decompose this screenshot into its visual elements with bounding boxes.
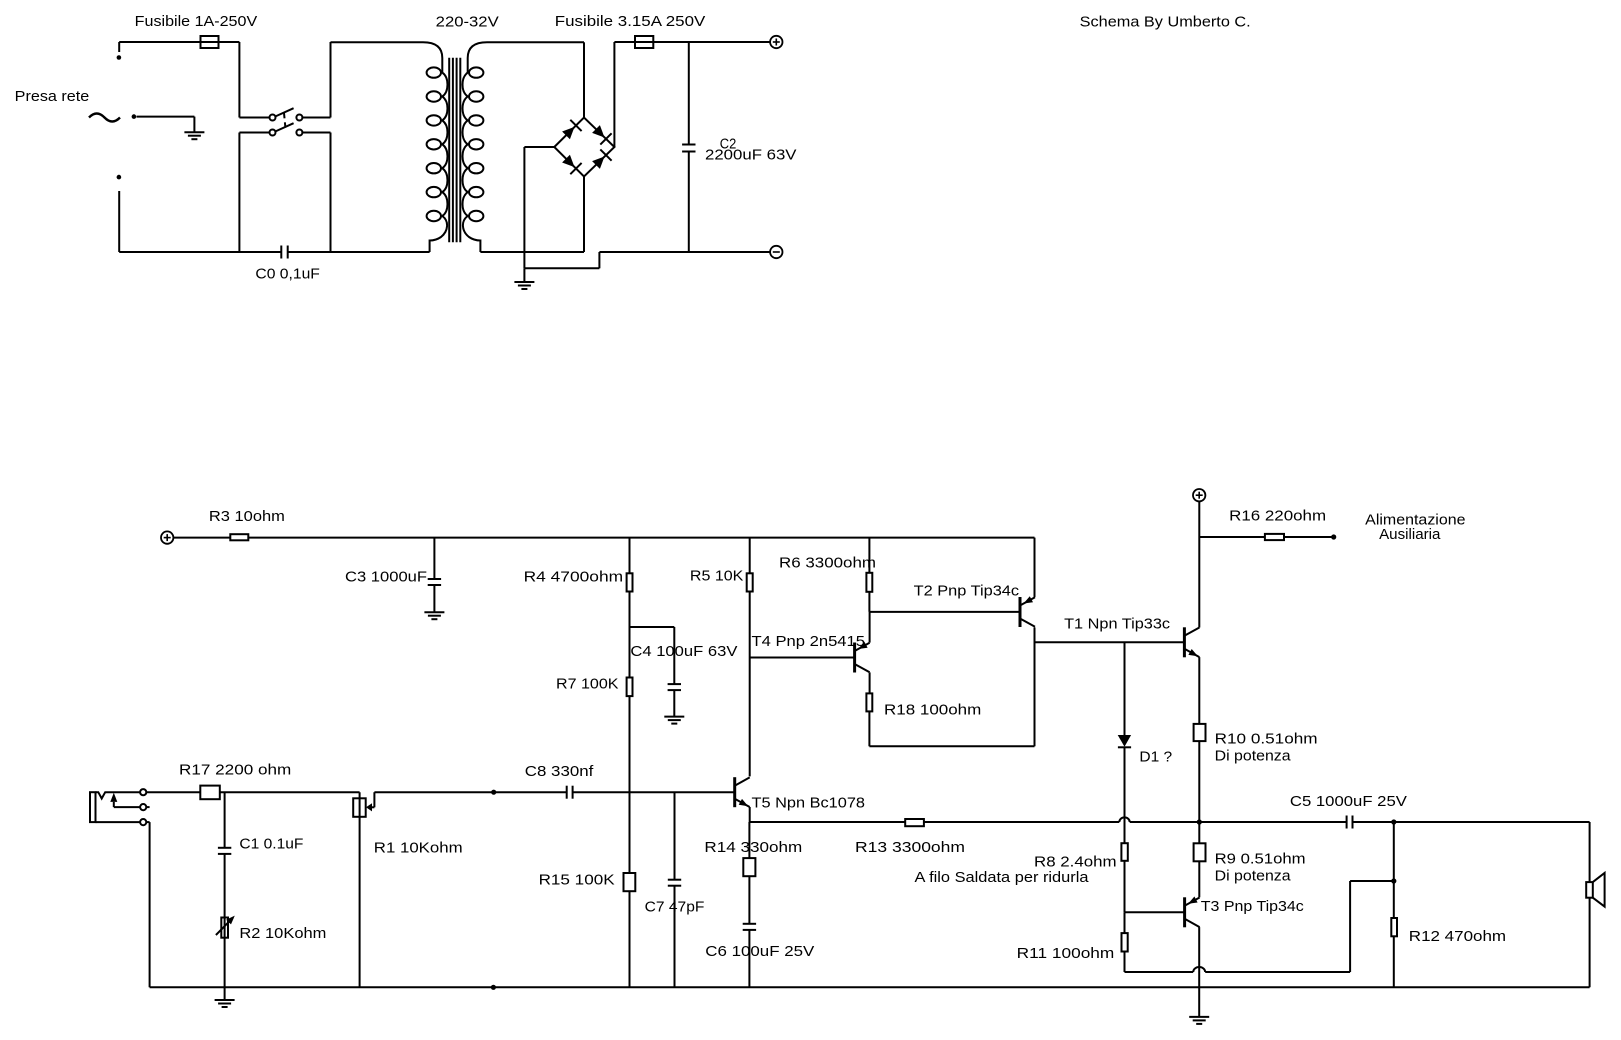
wire minus jog horizontal bbox=[524, 267, 599, 269]
ground C4 bbox=[664, 717, 684, 724]
svg-text:C4 100uF 63V: C4 100uF 63V bbox=[630, 643, 737, 660]
capacitor C5 bbox=[1347, 816, 1353, 829]
svg-text:Di potenza: Di potenza bbox=[1215, 867, 1292, 884]
wire R7 to R15 bbox=[629, 696, 631, 873]
wire T4 emitter up bbox=[869, 612, 871, 643]
resistor R18 bbox=[866, 693, 872, 711]
svg-text:R6 3300ohm: R6 3300ohm bbox=[779, 555, 876, 572]
switch S1 pole2 contact L bbox=[270, 130, 276, 136]
svg-text:R14 330ohm: R14 330ohm bbox=[704, 839, 802, 856]
node C5 R12 junction bbox=[1391, 819, 1396, 824]
wire T1 emitter to R10 bbox=[1198, 657, 1200, 724]
wire R11 rail to hop bbox=[1125, 971, 1194, 973]
resistor R3 bbox=[230, 534, 248, 540]
wire hop to corner bbox=[1205, 971, 1350, 973]
svg-text:T1 Npn Tip33c: T1 Npn Tip33c bbox=[1064, 616, 1171, 633]
wire speaker top bbox=[1589, 822, 1591, 882]
terminal minus output bbox=[770, 246, 782, 258]
svg-text:C1 0.1uF: C1 0.1uF bbox=[239, 836, 303, 853]
diode bridge D-TR bbox=[592, 125, 612, 145]
wire bridge ground stem bbox=[523, 268, 525, 282]
wire R5 top bbox=[749, 538, 751, 574]
wire R12 bottom bbox=[1393, 936, 1395, 987]
capacitor C8 bbox=[567, 786, 573, 799]
svg-text:T2 Pnp Tip34c: T2 Pnp Tip34c bbox=[914, 583, 1020, 600]
resistor R13 bbox=[905, 819, 924, 826]
svg-text:Fusibile 1A-250V: Fusibile 1A-250V bbox=[135, 13, 258, 30]
switch S1 pole1 blade bbox=[276, 108, 294, 116]
wire R10 to mid rail bbox=[1198, 741, 1200, 822]
wire bridge minus left bbox=[524, 146, 554, 148]
switch S1 pole2 blade bbox=[276, 123, 294, 131]
resistor R6 bbox=[866, 573, 872, 592]
wire bottom rail bbox=[150, 986, 1590, 988]
svg-text:T4 Pnp 2n5415: T4 Pnp 2n5415 bbox=[752, 633, 866, 650]
wire hop over D1 line bbox=[1119, 817, 1129, 822]
wire T2 collector to T1 base bbox=[1035, 641, 1185, 643]
wire R6 down bbox=[868, 592, 870, 612]
wire T4 collector down bbox=[869, 672, 871, 693]
svg-text:Fusibile 3.15A 250V: Fusibile 3.15A 250V bbox=[555, 13, 706, 30]
ground T3 collector bbox=[1189, 1017, 1209, 1024]
wire loop up to T2 collector bbox=[1034, 627, 1036, 746]
wire C1 top bbox=[224, 792, 226, 848]
svg-text:R1 10Kohm: R1 10Kohm bbox=[374, 840, 463, 857]
wire hop to T1 node bbox=[1130, 821, 1200, 823]
wire switch out2 down bbox=[330, 133, 332, 253]
wire R2 to ground bbox=[224, 938, 226, 1000]
terminal plus supply amp bbox=[161, 531, 173, 543]
wire to R12 tap bbox=[1350, 880, 1394, 882]
wire C4 to ground bbox=[673, 690, 675, 717]
transformer TR1 primary winding bbox=[331, 42, 448, 252]
wire R4 top bbox=[629, 538, 631, 574]
jack J1 pin 2 bbox=[140, 804, 146, 810]
svg-text:R10 0.51ohm: R10 0.51ohm bbox=[1215, 731, 1318, 748]
wire wiper to C8 bbox=[374, 791, 566, 793]
resistor R7 bbox=[627, 678, 633, 697]
switch S1 linkage bbox=[284, 113, 285, 128]
node input junction bbox=[491, 790, 496, 795]
node mains neutral pin bbox=[132, 114, 137, 119]
wire to switch pole1 bbox=[239, 117, 269, 119]
svg-text:Presa rete: Presa rete bbox=[15, 88, 90, 105]
wire switch out1 bbox=[302, 117, 330, 119]
wire C2 top bbox=[688, 42, 690, 145]
wire bottom rail left bbox=[119, 251, 281, 253]
svg-text:R9 0.51ohm: R9 0.51ohm bbox=[1215, 851, 1306, 868]
svg-text:C5 1000uF 25V: C5 1000uF 25V bbox=[1290, 793, 1407, 810]
terminal plus supply output stage bbox=[1193, 489, 1205, 501]
jack J1 pin 1 bbox=[140, 789, 146, 795]
resistor R15 bbox=[624, 873, 636, 891]
wire R16 branch bbox=[1199, 536, 1265, 538]
wire C7 top bbox=[674, 792, 676, 880]
wire R4 to R7 bbox=[629, 592, 631, 678]
resistor R5 bbox=[747, 573, 753, 591]
wire bottom rail right of C0 bbox=[288, 251, 430, 253]
capacitor C4 bbox=[668, 684, 681, 690]
node aux supply end bbox=[1331, 534, 1336, 539]
wire secondary bottom rail bbox=[480, 251, 584, 253]
svg-text:Ausiliaria: Ausiliaria bbox=[1379, 526, 1441, 543]
wire minus jog up bbox=[598, 252, 600, 268]
ground C3 bbox=[424, 612, 444, 619]
wire top rail down to T2 emitter bbox=[1034, 538, 1036, 598]
wire switch out1 up bbox=[330, 42, 332, 118]
wire R2 through bbox=[224, 918, 226, 938]
diode bridge D-BR bbox=[592, 149, 612, 169]
resistor R9 bbox=[1194, 843, 1206, 861]
wire T4 base bbox=[750, 657, 855, 659]
wire C2 bottom bbox=[688, 152, 690, 253]
wire C8 to T5 base bbox=[573, 791, 735, 793]
jack J1 body bbox=[90, 792, 96, 822]
diode D1 bbox=[1118, 735, 1131, 747]
resistor R11 bbox=[1122, 933, 1128, 951]
wire C3 stem bbox=[433, 538, 435, 579]
capacitor C3 bbox=[428, 579, 441, 585]
wire R18 bottom down bbox=[868, 711, 870, 746]
jack J1 sleeve wire bbox=[96, 821, 141, 823]
svg-text:C6 100uF 25V: C6 100uF 25V bbox=[705, 943, 814, 960]
transistor T5 Npn Bc1078 bbox=[735, 777, 750, 807]
wire speaker bottom bbox=[1589, 898, 1591, 988]
wire T1 collector up bbox=[1198, 501, 1200, 627]
wire neutral to ground bbox=[137, 116, 195, 118]
resistor R2 variable bbox=[216, 916, 235, 938]
wire pin3 to left rail bbox=[146, 821, 149, 823]
wire switch out2 bbox=[302, 132, 330, 134]
wire minus rail bbox=[599, 251, 770, 253]
wire neutral ground stem bbox=[193, 117, 195, 133]
wire left rail down bbox=[149, 822, 151, 987]
switch S1 pole1 contact R bbox=[296, 115, 302, 121]
wire pin2 stub bbox=[146, 806, 149, 808]
svg-text:C0 0,1uF: C0 0,1uF bbox=[255, 266, 320, 283]
switch S1 pole2 contact R bbox=[296, 130, 302, 136]
wire R9 to T3 emitter bbox=[1198, 861, 1200, 897]
resistor R16 bbox=[1265, 534, 1284, 540]
wire D1 cathode to R8 bbox=[1124, 747, 1126, 843]
jack J1 switch arrow bbox=[110, 793, 140, 807]
transformer TR1 secondary winding bbox=[463, 42, 584, 252]
resistor R14 bbox=[743, 858, 755, 876]
wire node to R11 bbox=[1124, 912, 1126, 933]
wire secondary top to bridge bbox=[583, 42, 585, 117]
potentiometer R1 track bbox=[353, 792, 366, 987]
transistor T1 Npn Tip33c bbox=[1184, 627, 1199, 657]
capacitor C0 bbox=[281, 246, 287, 259]
wire to fuse F2 bbox=[614, 41, 776, 43]
svg-text:T5 Npn Bc1078: T5 Npn Bc1078 bbox=[752, 795, 866, 812]
wire C5 to R12 node bbox=[1353, 821, 1394, 823]
svg-text:T3 Pnp Tip34c: T3 Pnp Tip34c bbox=[1201, 898, 1305, 915]
wire R5 to T5 collector bbox=[749, 592, 751, 777]
jack J1 tip contact bbox=[96, 792, 141, 798]
wire T3 collector to ground bbox=[1198, 927, 1200, 1017]
wire branch to C4 bbox=[630, 626, 675, 628]
bridge rectifier frame bbox=[554, 118, 614, 177]
svg-text:220-32V: 220-32V bbox=[436, 14, 499, 31]
wire R15 to bottom rail bbox=[629, 891, 631, 987]
wire bridge plus up bbox=[613, 42, 615, 147]
wire R17 to pot R1 bbox=[220, 791, 360, 793]
wire C3 to ground bbox=[433, 585, 435, 612]
resistor R12 bbox=[1391, 918, 1397, 936]
svg-text:C3 1000uF: C3 1000uF bbox=[345, 569, 427, 586]
wire R8 to T3 base node bbox=[1124, 861, 1126, 913]
wire C1 to R2 bbox=[224, 854, 226, 918]
wire C7 bottom bbox=[674, 886, 676, 988]
ground mains earth bbox=[184, 132, 204, 139]
wire R14 to C6 bbox=[748, 876, 750, 924]
jack J1 pin 3 bbox=[140, 819, 146, 825]
wire R13 to hop bbox=[924, 821, 1119, 823]
ground bridge bbox=[514, 282, 534, 289]
svg-text:R17 2200 ohm: R17 2200 ohm bbox=[179, 762, 291, 779]
wire C6 bottom bbox=[748, 930, 750, 987]
wire up to switch pole2 bbox=[238, 133, 240, 253]
node R12 tap junction bbox=[1391, 878, 1396, 883]
wire rail to speaker bbox=[1394, 821, 1590, 823]
switch S1 pole1 contact L bbox=[270, 115, 276, 121]
resistor R8 bbox=[1121, 843, 1127, 861]
svg-text:R13 3300ohm: R13 3300ohm bbox=[855, 839, 965, 856]
potentiometer R1 wiper bbox=[366, 792, 374, 811]
svg-text:R7 100K: R7 100K bbox=[556, 676, 619, 693]
node mains live pin bbox=[117, 55, 122, 60]
terminal plus output bbox=[770, 36, 782, 48]
svg-text:C8 330nf: C8 330nf bbox=[525, 763, 594, 780]
wire F1 down to switch bbox=[238, 42, 240, 118]
svg-text:R18 100ohm: R18 100ohm bbox=[884, 702, 981, 719]
ground R2 bbox=[215, 1000, 235, 1007]
wire R16 to aux bbox=[1284, 536, 1334, 538]
svg-text:R8 2.4ohm: R8 2.4ohm bbox=[1034, 854, 1117, 871]
node output rail junction bbox=[1197, 819, 1202, 824]
wire hop over T3 collector bbox=[1193, 967, 1205, 972]
capacitor C1 bbox=[218, 848, 231, 854]
wire corner up bbox=[1349, 881, 1351, 972]
node bottom rail dot bbox=[491, 985, 496, 990]
wire bridge bottom down bbox=[583, 177, 585, 253]
svg-text:R15 100K: R15 100K bbox=[539, 872, 615, 889]
wire live to fuse F1 bbox=[119, 41, 239, 43]
resistor R17 bbox=[200, 786, 220, 800]
svg-text:R16 220ohm: R16 220ohm bbox=[1229, 508, 1326, 525]
svg-text:2200uF 63V: 2200uF 63V bbox=[705, 146, 797, 163]
wire T5 emitter down bbox=[749, 807, 751, 822]
svg-text:R2 10Kohm: R2 10Kohm bbox=[239, 925, 326, 942]
transformer TR1 core bbox=[449, 58, 460, 243]
transistor T4 Pnp 2n5415 bbox=[855, 642, 870, 673]
resistor R4 bbox=[627, 573, 633, 591]
transformer TR1 primary loops bbox=[427, 67, 441, 221]
wire earth down bbox=[118, 191, 120, 252]
wire switch pole2 in bbox=[239, 132, 269, 134]
wire top rail bbox=[248, 537, 1034, 539]
wire live up bbox=[118, 42, 120, 52]
wire T5 emitter rail to R13 bbox=[750, 821, 906, 823]
svg-text:Di potenza: Di potenza bbox=[1215, 747, 1292, 764]
wire bridge minus down bbox=[523, 147, 525, 268]
transistor T3 Pnp Tip34c bbox=[1185, 897, 1200, 928]
resistor R10 bbox=[1194, 724, 1206, 741]
capacitor C7 bbox=[668, 880, 681, 886]
svg-text:Schema By Umberto C.: Schema By Umberto C. bbox=[1080, 13, 1251, 30]
wire R18 loop bottom bbox=[869, 745, 1034, 747]
svg-text:D1 ?: D1 ? bbox=[1139, 748, 1172, 765]
transformer TR1 secondary loops bbox=[469, 67, 483, 221]
speaker LS1 bbox=[1586, 873, 1604, 907]
wire R12 top bbox=[1393, 822, 1395, 918]
AC source symbol bbox=[89, 114, 120, 122]
wire rail to R9 bbox=[1198, 822, 1200, 843]
wire R11 down bbox=[1124, 952, 1126, 973]
wire R6 top bbox=[868, 538, 870, 573]
wire pin1 to R17 bbox=[146, 791, 200, 793]
wire supply to R3 bbox=[173, 537, 230, 539]
wire R14 top bbox=[748, 822, 750, 858]
svg-text:R3 10ohm: R3 10ohm bbox=[209, 508, 285, 525]
svg-text:R12 470ohm: R12 470ohm bbox=[1409, 928, 1506, 945]
fuse F1 Fusibile 1A-250V bbox=[201, 36, 219, 48]
svg-text:R11 100ohm: R11 100ohm bbox=[1017, 945, 1115, 962]
wire C4 top bbox=[673, 627, 675, 684]
wire T2 base line bbox=[869, 611, 1020, 613]
transistor T2 Pnp Tip34c bbox=[1020, 596, 1035, 627]
wire T3 base bbox=[1125, 911, 1185, 913]
capacitor C6 bbox=[743, 924, 756, 930]
diode bridge D-BL bbox=[562, 155, 582, 175]
svg-text:R4 4700ohm: R4 4700ohm bbox=[524, 569, 624, 586]
fuse F2 Fusibile 3.15A 250V bbox=[635, 36, 653, 48]
node mains earth pin bbox=[117, 175, 122, 180]
diode bridge D-TL bbox=[562, 120, 582, 140]
svg-text:R5 10K: R5 10K bbox=[690, 568, 744, 585]
capacitor C2 bbox=[682, 145, 695, 152]
wire D1 anode bbox=[1124, 642, 1126, 735]
wire rail to C5 bbox=[1199, 821, 1346, 823]
svg-text:A filo Saldata per ridurla: A filo Saldata per ridurla bbox=[915, 869, 1090, 886]
